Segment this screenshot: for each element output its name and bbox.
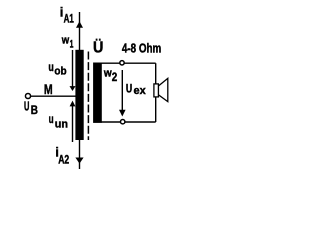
svg-text:A1: A1: [64, 14, 75, 26]
svg-text:u: u: [48, 62, 53, 74]
label u_ob: [48, 62, 66, 78]
svg-text:Ü: Ü: [93, 37, 103, 56]
svg-text:M: M: [44, 81, 53, 97]
label w2: [103, 67, 118, 84]
loudspeaker driver rect: [154, 84, 159, 97]
label u_un: [49, 114, 68, 130]
terminal U_B circle: [25, 93, 30, 98]
label u_ex: [126, 82, 146, 98]
current arrow iA1: [76, 21, 83, 28]
svg-text:U: U: [126, 82, 132, 96]
svg-text:1: 1: [70, 39, 74, 51]
svg-text:ex: ex: [134, 85, 147, 97]
svg-text:u: u: [49, 114, 54, 126]
voltage arrow u_un: [70, 101, 76, 142]
svg-text:w: w: [103, 67, 112, 79]
svg-text:2: 2: [112, 70, 118, 84]
wire: secondary top lead: [102, 62, 156, 64]
transformer secondary winding W2 bar: [93, 63, 102, 123]
terminal: secondary bottom circle: [121, 120, 125, 124]
label iA2: [55, 146, 69, 167]
loudspeaker horn: [158, 78, 167, 101]
label iA1: [60, 4, 74, 25]
transformer primary winding W1 bar: [75, 50, 83, 140]
svg-text:U: U: [24, 99, 29, 113]
svg-text:un: un: [55, 118, 68, 130]
svg-text:w: w: [61, 35, 69, 47]
label w1: [61, 35, 73, 51]
wire: primary top lead: [79, 12, 81, 51]
svg-text:A2: A2: [58, 154, 69, 166]
voltage arrow u_ex: [119, 70, 126, 117]
svg-text:4-8 Ohm: 4-8 Ohm: [122, 40, 161, 55]
transformer core dashed line: [87, 52, 89, 141]
voltage arrow u_ob: [70, 50, 76, 91]
wire: secondary bottom lead: [102, 121, 156, 123]
wire: speaker branch vertical: [155, 63, 157, 122]
label U_B: [24, 99, 38, 117]
svg-text:ob: ob: [54, 66, 66, 78]
wire: primary bottom lead: [79, 139, 81, 169]
current arrow iA2: [75, 158, 83, 164]
wire: M supply lead: [31, 95, 76, 97]
terminal: secondary top circle: [120, 61, 124, 65]
svg-text:B: B: [31, 105, 38, 117]
